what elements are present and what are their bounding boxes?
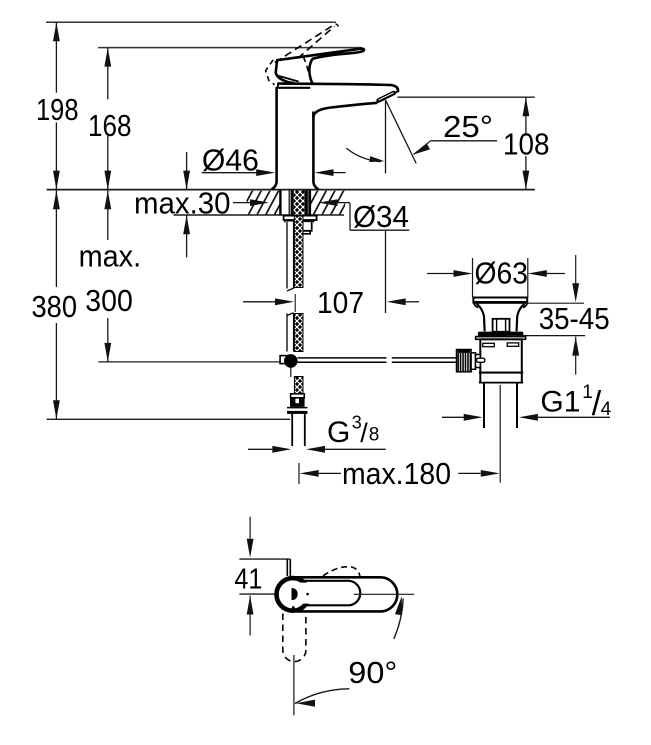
svg-text:300: 300 (85, 283, 133, 318)
svg-text:90°: 90° (348, 655, 397, 690)
svg-text:Ø63: Ø63 (475, 256, 529, 291)
svg-text:G: G (327, 416, 350, 449)
svg-text:168: 168 (88, 108, 132, 143)
svg-text:max.30: max.30 (134, 185, 231, 220)
svg-text:Ø34: Ø34 (353, 199, 409, 234)
svg-text:G1: G1 (540, 386, 580, 419)
svg-text:/: / (360, 418, 368, 448)
svg-text:max.: max. (79, 239, 142, 274)
svg-text:198: 198 (36, 92, 79, 127)
svg-text:max.180: max.180 (342, 456, 451, 491)
svg-text:8: 8 (369, 425, 380, 446)
svg-text:107: 107 (317, 285, 364, 320)
svg-text:35-45: 35-45 (539, 301, 610, 336)
svg-text:41: 41 (234, 564, 262, 596)
svg-text:25°: 25° (443, 109, 493, 144)
svg-text:380: 380 (32, 289, 78, 324)
